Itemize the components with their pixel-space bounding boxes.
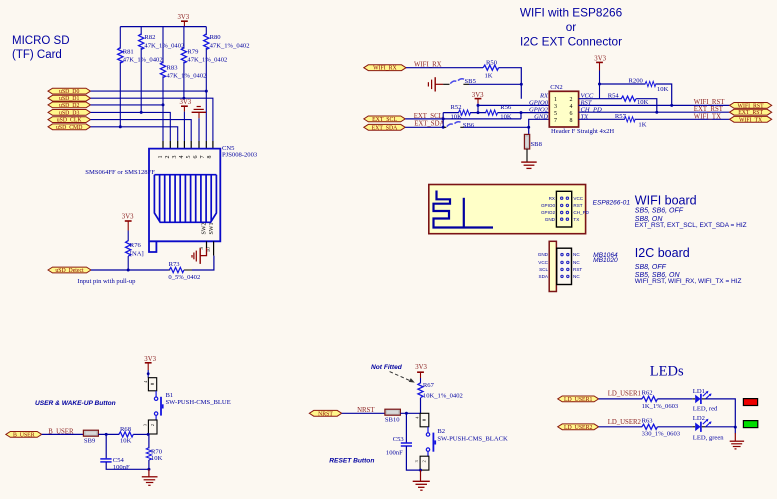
svg-text:or: or [566, 20, 577, 34]
wire GPIO0 row [478, 104, 549, 106]
wire resistor row GPIO2 [443, 112, 549, 114]
svg-text:6: 6 [193, 156, 199, 159]
svg-text:100nF: 100nF [386, 449, 403, 456]
wire WIFI_RX row [406, 68, 521, 99]
svg-text:WIFI_RX: WIFI_RX [373, 66, 397, 72]
header pin names [541, 196, 556, 222]
wire CH_PD row [579, 111, 730, 113]
svg-text:5: 5 [186, 156, 192, 159]
port uSD_Detect [48, 267, 91, 274]
svg-text:Not Fitted: Not Fitted [371, 364, 403, 371]
svg-text:R82: R82 [144, 34, 155, 41]
wire uSD_D0 [91, 90, 207, 92]
svg-text:uSD_CMD: uSD_CMD [56, 125, 82, 131]
power 3V3 (R52/R56 pull-up) [472, 92, 484, 112]
I2C board strip [549, 241, 556, 291]
svg-text:WIFI_TX: WIFI_TX [739, 117, 763, 123]
svg-text:GPIO0: GPIO0 [529, 100, 549, 107]
switch B1 pin box bottom [148, 420, 157, 434]
svg-text:1K: 1K [638, 121, 646, 128]
wire uSD_CLK to pin5 [91, 120, 192, 141]
svg-text:1: 1 [158, 156, 164, 159]
svg-text:SDA: SDA [539, 274, 549, 279]
svg-text:R81: R81 [123, 48, 134, 55]
pin names left [529, 93, 549, 121]
svg-text:R76: R76 [130, 242, 142, 249]
svg-text:B2: B2 [437, 428, 445, 435]
wire uSD_CMD to pin3 [91, 127, 178, 141]
ground (LEDs) [730, 433, 744, 449]
solder bridge SB8 [524, 134, 529, 149]
wire R80 column (continues to CN5 pin7) [205, 27, 207, 141]
port LD_USER1 [558, 396, 599, 403]
svg-text:SB9: SB9 [84, 438, 96, 445]
wire SCL/SDA vertical [442, 113, 444, 128]
svg-text:3V3: 3V3 [178, 14, 190, 21]
LED red indicator [743, 399, 757, 406]
wire SB8 to ground [526, 149, 528, 162]
svg-text:NC: NC [573, 260, 580, 265]
wire to SB9 [42, 433, 84, 435]
svg-text:WIFI_RST: WIFI_RST [738, 103, 765, 109]
svg-text:uSD_Detect: uSD_Detect [55, 268, 84, 274]
wire TX row + resistor R57 [579, 118, 730, 120]
header 2x4 [557, 248, 572, 284]
wire R68 to switch column [133, 433, 148, 435]
port NRST [309, 410, 341, 417]
wire R79 column [183, 27, 185, 99]
wire R81 column [119, 27, 121, 127]
svg-text:C53: C53 [393, 436, 405, 443]
power 3V3 (CN5 VDD) [180, 99, 192, 112]
svg-text:WIFI_TX: WIFI_TX [694, 113, 721, 120]
svg-text:3V3: 3V3 [594, 56, 606, 63]
switch B2 pin box top [420, 413, 429, 427]
solder bridge SB10 [385, 409, 401, 415]
wire uSD_D1 to pin8 [91, 98, 213, 141]
resistor R62 [642, 396, 658, 401]
port EXT_SCL [364, 116, 405, 123]
svg-text:2: 2 [570, 97, 573, 103]
micro SD card drawing (comb) [154, 175, 216, 223]
svg-text:uSD_D3: uSD_D3 [59, 110, 79, 116]
svg-text:EXT_RST: EXT_RST [738, 110, 763, 116]
svg-text:47K_1%_0402: 47K_1%_0402 [210, 42, 250, 49]
power 3V3 (R76 pull-up) [122, 214, 134, 242]
wire pin10 down to R73 row [192, 256, 214, 270]
svg-text:3V3: 3V3 [415, 364, 427, 371]
svg-text:GND: GND [534, 113, 548, 120]
svg-text:R50: R50 [486, 60, 498, 67]
wire to R63 [599, 426, 643, 428]
svg-text:GND: GND [538, 252, 549, 257]
node R52/R56/3V3 [477, 111, 480, 114]
antenna trace [434, 191, 494, 228]
capacitor C54 [105, 434, 107, 458]
resistor R52 [458, 110, 470, 115]
resistor R79 [181, 48, 186, 64]
ground (B1) [142, 469, 158, 485]
wire 3V3 to pin4 [183, 112, 185, 141]
svg-text:ESP8266-01: ESP8266-01 [593, 200, 631, 207]
svg-text:0_5%_0402: 0_5%_0402 [168, 274, 200, 281]
svg-text:I2C EXT Connector: I2C EXT Connector [520, 35, 622, 49]
svg-text:LD1: LD1 [693, 388, 705, 395]
svg-text:2: 2 [150, 424, 155, 426]
svg-text:Header F Straight 4x2H: Header F Straight 4x2H [551, 128, 614, 135]
resistor R68 [119, 432, 133, 437]
svg-text:MB1020: MB1020 [593, 257, 618, 264]
node uSD_D1/R79 junction [182, 97, 185, 100]
svg-text:CN2: CN2 [550, 84, 562, 91]
svg-text:3V3: 3V3 [144, 356, 156, 363]
wire R83 column (continues to CN5 pin1) [162, 27, 164, 141]
svg-text:6: 6 [570, 111, 573, 117]
svg-text:MICRO SD: MICRO SD [12, 35, 70, 47]
resistor R83 [160, 62, 165, 78]
wire earth to pin6 [198, 118, 200, 141]
svg-text:LD_USER1: LD_USER1 [608, 391, 641, 398]
svg-text:SW-PUSH-CMS_BLUE: SW-PUSH-CMS_BLUE [166, 399, 231, 406]
wire VCC row [579, 98, 600, 100]
svg-text:WIFI_RST: WIFI_RST [694, 99, 725, 106]
ground (SB8) [521, 162, 537, 168]
svg-text:NRST: NRST [318, 411, 333, 417]
node SB5 junction [520, 83, 523, 86]
switch B1 [155, 391, 157, 397]
wire R54 row [600, 99, 657, 113]
svg-text:4: 4 [570, 104, 573, 110]
wire R63 to LED [657, 426, 692, 428]
svg-text:R57: R57 [615, 113, 627, 120]
svg-text:R83: R83 [167, 65, 179, 72]
port LD_USER2 [558, 424, 599, 431]
svg-text:R73: R73 [169, 261, 181, 268]
svg-text:LED, red: LED, red [693, 406, 718, 413]
svg-text:GPIO0: GPIO0 [541, 203, 555, 208]
svg-text:WIFI board: WIFI board [635, 194, 697, 208]
svg-text:1K_1%_0603: 1K_1%_0603 [642, 403, 679, 410]
ground (B2) [413, 470, 430, 490]
WIFI board ESP8266-01 module [429, 185, 586, 234]
ground (earth, inverted, CN5 VSS) [192, 107, 206, 119]
svg-text:EXT_RST, EXT_SCL, EXT_SDA = HI: EXT_RST, EXT_SCL, EXT_SDA = HIZ [635, 222, 747, 229]
svg-text:uSD_D1: uSD_D1 [59, 96, 79, 102]
node R200 tap [598, 83, 601, 86]
resistor R73 [169, 269, 193, 271]
svg-text:R63: R63 [642, 417, 654, 424]
resistor R70 [148, 434, 150, 448]
svg-text:PJS008-2003: PJS008-2003 [222, 152, 258, 159]
svg-text:R67: R67 [423, 382, 435, 389]
svg-text:7: 7 [200, 156, 206, 159]
svg-text:SB8: SB8 [531, 141, 543, 148]
svg-text:(TF) Card: (TF) Card [12, 49, 62, 61]
LED LD1 [695, 391, 711, 404]
connector CN2 [549, 84, 578, 127]
pin stubs (black) into CN5 [163, 141, 213, 149]
svg-text:5: 5 [554, 111, 557, 117]
svg-text:10K: 10K [120, 438, 132, 445]
svg-text:10K_1%_0402: 10K_1%_0402 [423, 393, 463, 400]
solder bridge SB5 [443, 83, 449, 85]
svg-text:R80: R80 [210, 34, 222, 41]
wire detect row [91, 269, 169, 271]
svg-text:SB6: SB6 [463, 122, 475, 129]
svg-text:R56: R56 [500, 104, 512, 111]
node GPIO2/SCL rise [520, 111, 523, 114]
wire 3V3 bus [120, 26, 206, 28]
svg-text:10: 10 [207, 247, 212, 253]
power 3V3 (VCC) [594, 56, 606, 99]
pin 9 stub [206, 241, 208, 248]
resistor R54 [621, 96, 636, 101]
wire R82 column [140, 27, 142, 113]
node uSD_D2/R83 junction [162, 103, 165, 106]
svg-text:4: 4 [415, 416, 420, 419]
svg-text:LD2: LD2 [693, 415, 705, 422]
svg-text:WIFI_RST, WIFI_RX, WIFI_TX = H: WIFI_RST, WIFI_RX, WIFI_TX = HIZ [635, 278, 742, 285]
port uSD_CLK [48, 117, 91, 124]
port uSD_D0 [48, 88, 91, 95]
svg-text:3: 3 [142, 424, 147, 426]
svg-text:7: 7 [554, 118, 557, 124]
header pin names [538, 252, 549, 279]
wire to ground [734, 427, 736, 433]
port uSD_CMD [48, 124, 91, 131]
svg-text:EXT_SDA: EXT_SDA [372, 125, 399, 131]
resistor R200 [645, 81, 656, 86]
resistor R80 [204, 34, 209, 50]
svg-text:LED, green: LED, green [693, 434, 724, 441]
resistor R67 [418, 383, 423, 398]
svg-text:R62: R62 [642, 389, 653, 396]
svg-text:R68: R68 [120, 426, 132, 433]
svg-text:R200: R200 [629, 78, 644, 85]
svg-text:LD_USER1: LD_USER1 [564, 397, 592, 403]
svg-text:47K_1%_0402: 47K_1%_0402 [167, 73, 207, 80]
svg-text:10K: 10K [657, 86, 669, 93]
svg-text:3: 3 [554, 104, 557, 110]
pin 10 stub [213, 241, 215, 255]
svg-text:EXT_SDA: EXT_SDA [414, 121, 444, 128]
svg-text:4: 4 [179, 156, 185, 159]
svg-text:SB5, SB6, OFF: SB5, SB6, OFF [635, 208, 684, 215]
svg-text:3: 3 [414, 460, 419, 462]
svg-text:[NA]: [NA] [130, 251, 144, 258]
svg-text:USER & WAKE-UP Button: USER & WAKE-UP Button [35, 400, 116, 407]
svg-text:3V3: 3V3 [180, 99, 192, 106]
svg-text:4: 4 [143, 380, 148, 383]
CN5 pin numbers 1-8 (rotated) [158, 156, 213, 159]
wire SB10 to B2 [400, 412, 420, 414]
LED LD2 [695, 419, 711, 432]
svg-text:LD_USER2: LD_USER2 [608, 419, 642, 426]
wire EXT_SCL row [405, 113, 521, 119]
svg-text:1K: 1K [485, 73, 493, 80]
wire uSD_D2 [91, 104, 164, 106]
svg-text:3V3: 3V3 [122, 214, 134, 221]
power 3V3 (B1) [144, 356, 156, 378]
port uSD_D1 [48, 95, 91, 102]
svg-text:GPIO2: GPIO2 [541, 210, 555, 215]
svg-text:WIFI with ESP8266: WIFI with ESP8266 [520, 6, 623, 20]
node 3V3/GPIO0 [477, 104, 480, 107]
svg-text:NC: NC [573, 252, 580, 257]
LED green indicator [743, 421, 757, 428]
svg-text:SB8, OFF: SB8, OFF [635, 264, 667, 271]
wire EXT_SDA row + solder bridge SB6 [405, 126, 444, 128]
wire R200 row [600, 84, 672, 105]
svg-text:RST: RST [573, 267, 582, 272]
ground (earth, sideways, SW pin) [192, 248, 207, 264]
port uSD_D2 [48, 102, 91, 109]
port B_USER [6, 432, 42, 439]
svg-text:EXT_SCL: EXT_SCL [372, 117, 397, 123]
port WIFI_TX [730, 116, 772, 123]
svg-text:SCL: SCL [539, 267, 548, 272]
resistor R76 [126, 241, 131, 257]
svg-text:R79: R79 [187, 48, 199, 55]
connector CN5 outline [149, 149, 220, 252]
svg-text:R52: R52 [451, 104, 462, 111]
port WIFI_RST [730, 103, 772, 110]
svg-text:VCC: VCC [573, 196, 583, 201]
wire RST row [579, 104, 730, 106]
port WIFI_RX [364, 65, 406, 72]
switch B1 pin box top [148, 378, 156, 391]
resistor R63 [642, 424, 658, 429]
svg-text:8: 8 [207, 156, 213, 159]
svg-text:RX: RX [549, 196, 555, 201]
svg-text:3: 3 [172, 156, 178, 159]
wire uSD_D3 to pin2 [91, 112, 171, 141]
wire R76 to detect row [127, 256, 129, 270]
svg-text:GND: GND [545, 217, 556, 222]
node SDA/GND [527, 126, 530, 129]
svg-text:B1: B1 [166, 392, 174, 399]
svg-text:R54: R54 [608, 93, 620, 100]
svg-text:100nF: 100nF [113, 464, 130, 471]
solder bridge SB9 [83, 430, 98, 436]
wire to SB10 [342, 412, 385, 414]
svg-text:47K_1%_0402: 47K_1%_0402 [144, 42, 184, 49]
svg-text:2: 2 [165, 156, 171, 159]
svg-text:RST: RST [573, 203, 582, 208]
svg-text:330_1%_0603: 330_1%_0603 [642, 431, 681, 438]
svg-text:SB10: SB10 [385, 417, 400, 424]
wire SB9 to R68 [98, 433, 119, 435]
svg-text:TX: TX [573, 217, 579, 222]
resistor R50 [483, 65, 499, 70]
svg-text:VCC: VCC [538, 260, 548, 265]
port EXT_RST [730, 109, 772, 116]
svg-text:47K_1%_0402: 47K_1%_0402 [187, 57, 227, 64]
svg-text:LEDs: LEDs [650, 363, 684, 379]
svg-text:SW-PUSH-CMS_BLACK: SW-PUSH-CMS_BLACK [437, 435, 508, 442]
svg-text:I2C board: I2C board [635, 246, 690, 260]
node uSD_CMD/R81 junction [119, 125, 122, 128]
wire GND pin row [529, 119, 550, 134]
svg-text:10K: 10K [151, 455, 163, 462]
svg-text:2: 2 [422, 460, 427, 462]
node uSD_D0/R80 junction [205, 90, 208, 93]
node uSD_D3/R82 junction [140, 111, 143, 114]
ground (earth, sideways, SB5) [428, 77, 443, 91]
svg-text:LD_USER2: LD_USER2 [564, 425, 592, 431]
svg-text:SMS064FF or SMS128FF: SMS064FF or SMS128FF [85, 169, 155, 176]
svg-text:47K_1%_0402: 47K_1%_0402 [123, 57, 163, 64]
switch B2 [427, 427, 429, 433]
svg-text:uSD_D2: uSD_D2 [59, 103, 79, 109]
svg-text:NC: NC [573, 274, 580, 279]
power 3V3 (R67) [415, 364, 427, 383]
svg-text:CH_PD: CH_PD [573, 210, 589, 215]
resistor R81 [118, 48, 123, 64]
capacitor C53 [405, 413, 407, 442]
svg-text:SW2: SW2 [202, 223, 208, 235]
power 3V3 (top of pull-up bus) [178, 14, 190, 27]
header 2x4 [556, 191, 571, 227]
not-fitted dashed arrow [390, 372, 412, 382]
svg-text:EXT_RST: EXT_RST [694, 106, 724, 113]
resistor R56 [486, 110, 498, 115]
svg-text:RESET Button: RESET Button [329, 458, 374, 465]
node detect junction [127, 269, 130, 272]
svg-text:uSD_CLK: uSD_CLK [57, 118, 83, 124]
switch B2 pin box bottom [420, 456, 429, 470]
svg-text:8: 8 [570, 118, 573, 124]
wire R62 to LED [657, 398, 692, 400]
svg-text:uSD_D0: uSD_D0 [59, 89, 79, 95]
port uSD_D3 [48, 110, 91, 117]
svg-text:Input pin with pull-up: Input pin with pull-up [77, 278, 136, 285]
svg-text:B_USER: B_USER [13, 432, 35, 438]
port EXT_SDA [364, 124, 405, 131]
resistor R82 [139, 34, 144, 50]
svg-text:1: 1 [554, 97, 557, 103]
svg-text:SW1: SW1 [209, 223, 215, 235]
wire to R62 [599, 398, 643, 400]
pin names right [580, 93, 602, 121]
